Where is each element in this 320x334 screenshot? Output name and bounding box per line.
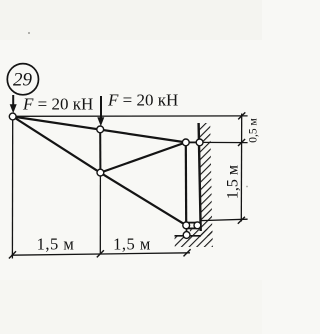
node C' wall pin (196, 139, 203, 146)
support link C-C' (186, 141, 200, 143)
wall face line (199, 123, 201, 231)
tick right bottom (238, 217, 245, 224)
dimension line bottom (11, 253, 190, 255)
extension line top (A level, to right) (13, 115, 248, 117)
member diagonal A-D (13, 117, 100, 173)
force arrow F2 (97, 96, 104, 126)
node E (183, 222, 190, 229)
member diagonal D-E (100, 173, 186, 226)
node E' wall pin (194, 222, 201, 229)
force arrow F1 (10, 95, 17, 113)
svg-text:1,5 м: 1,5 м (37, 235, 75, 254)
node D (97, 169, 104, 176)
node C (182, 139, 189, 146)
dimension line right vertical (240, 114, 242, 222)
member top chord A-B-C (13, 117, 186, 143)
extension line mid right (C level) (200, 141, 248, 143)
scan speck top left (28, 32, 30, 34)
scan speck right (246, 186, 248, 188)
tick right middle (238, 139, 245, 146)
extension line middle (from D down) (99, 173, 101, 255)
node E'' anchor pin (183, 232, 190, 239)
member vertical B-D (99, 129, 101, 172)
problem number circle 29 (7, 64, 38, 95)
support link E-E'' (185, 226, 187, 234)
svg-text:F = 20 кН: F = 20 кН (107, 91, 178, 110)
node A (9, 113, 16, 120)
tick right top (238, 112, 245, 119)
extension line left (from A down) (11, 120, 13, 259)
svg-text:F = 20 кН: F = 20 кН (22, 95, 93, 114)
support hatch bottom (175, 229, 213, 247)
member diagonal D-C (100, 142, 185, 172)
tick bottom left (9, 251, 16, 258)
svg-text:1,5 м: 1,5 м (225, 165, 242, 199)
support link E-E' top edge (186, 222, 197, 224)
support ground line (175, 235, 202, 237)
tick bottom middle (97, 250, 104, 257)
wall hatching band (199, 123, 213, 236)
node B (97, 126, 104, 133)
svg-text:29: 29 (13, 70, 33, 91)
tick bottom right (184, 249, 191, 256)
member vertical C-E (185, 142, 188, 225)
svg-text:0,5 м: 0,5 м (248, 118, 260, 143)
svg-text:1,5 м: 1,5 м (113, 235, 151, 254)
extension line bottom right (E level) (201, 219, 248, 220)
support link E-E' bottom edge (186, 227, 197, 229)
